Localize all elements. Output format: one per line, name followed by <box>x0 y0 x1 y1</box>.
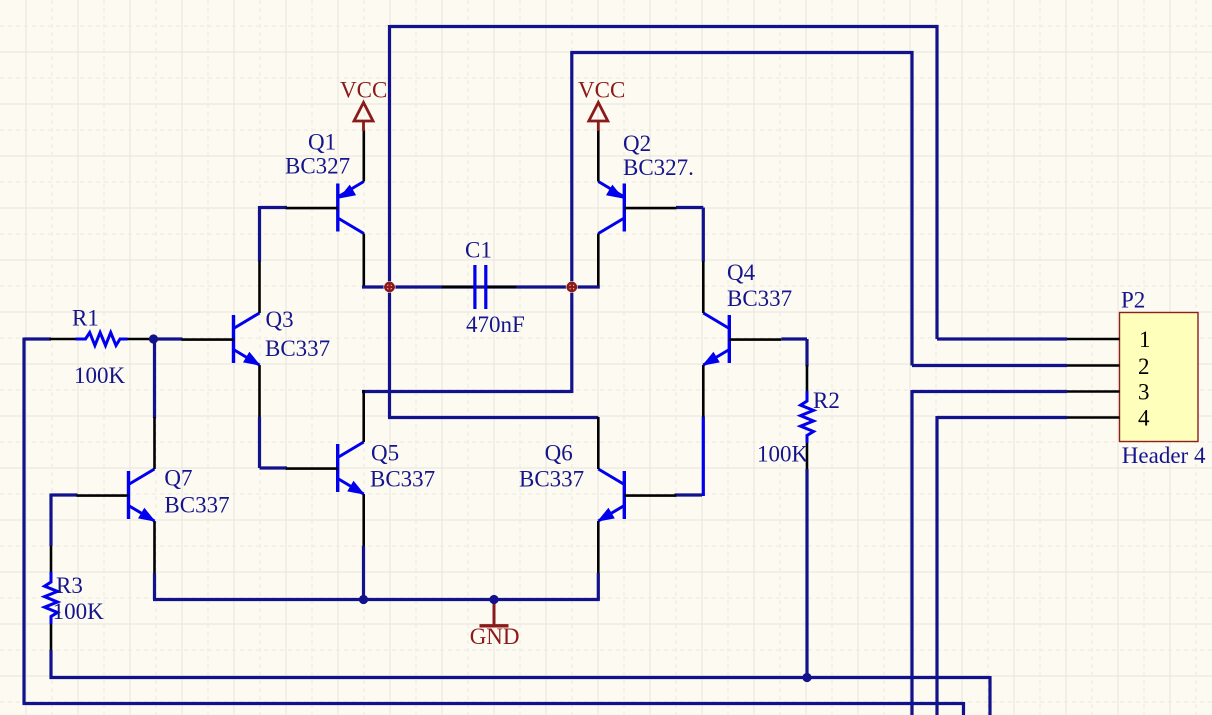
svg-text:470nF: 470nF <box>466 312 525 337</box>
transistor Q6 (NPN BC337, mirrored) <box>598 417 676 573</box>
wire segment Q3 emitter to Q5 base <box>260 417 288 468</box>
wire segment Q2 base to Q4 collector <box>676 208 703 262</box>
resistor R3 (100K) <box>45 546 58 650</box>
wire segment R1 junction down to Q7 collector <box>153 339 156 418</box>
svg-text:2: 2 <box>1138 354 1150 379</box>
svg-text:BC337: BC337 <box>370 466 435 491</box>
wire segment Q1 base to Q3 collector <box>260 206 288 262</box>
svg-text:100K: 100K <box>74 363 126 388</box>
svg-text:Q7: Q7 <box>164 466 192 491</box>
transistor Q7 (NPN BC337) <box>77 417 155 573</box>
wire segment Q4 emitter to Q6 base (blue colored wire) <box>675 417 704 497</box>
power port VCC (over Q2) <box>589 103 608 132</box>
wire emitter bus (Q7/Q5/GND/Q6 emitters) <box>153 546 600 600</box>
wire net P2 pin 4 (down to bottom edge) <box>937 416 1067 715</box>
svg-text:Q3: Q3 <box>266 307 294 332</box>
svg-text:4: 4 <box>1138 406 1150 431</box>
svg-text:Q6: Q6 <box>545 441 573 466</box>
wire ground bus (y=677) to bottom edge at right <box>50 676 991 715</box>
ground symbol GND <box>480 600 509 626</box>
svg-text:BC327.: BC327. <box>623 155 694 180</box>
junction dot at R2 bottom on ground bus <box>802 673 811 682</box>
wire segment Q7 base to R3 top <box>51 494 78 547</box>
resistor R2 (100K) <box>801 365 814 469</box>
P2 pin 2 stub <box>1067 364 1120 367</box>
svg-text:R1: R1 <box>72 306 99 331</box>
svg-text:BC337: BC337 <box>727 286 792 311</box>
connector P2 (Header 4) body <box>1120 313 1199 442</box>
wire net NetQ5_C (Q5 collector to header P2 pin 2, inner top loop) <box>362 51 1067 393</box>
svg-text:VCC: VCC <box>578 77 625 102</box>
wire net R1 left rail (R1 left pin down and along bottom) <box>23 338 964 715</box>
wire segment R1 right pin to Q3 base <box>154 337 183 340</box>
transistor Q5 (NPN BC337) <box>286 390 364 546</box>
svg-text:3: 3 <box>1138 380 1150 405</box>
wire net NetQ6_C (Q6 collector to header P2 pin 1, top outer loop) <box>388 25 1067 418</box>
transistor Q2 (PNP BC327, mirrored) <box>598 130 676 286</box>
svg-text:1: 1 <box>1139 327 1151 352</box>
svg-text:BC327: BC327 <box>285 153 350 178</box>
svg-text:BC337: BC337 <box>164 492 229 517</box>
svg-text:VCC: VCC <box>340 77 387 102</box>
svg-text:Q2: Q2 <box>623 131 651 156</box>
svg-text:Q4: Q4 <box>727 260 756 285</box>
junction dot at GND stub on emitter bus <box>489 595 498 604</box>
wire segment R2 bottom to ground bus <box>805 469 808 678</box>
wire net C1 (Q1 collector to Q2 collector through C1) <box>362 285 600 288</box>
svg-text:100K: 100K <box>757 442 809 467</box>
svg-text:Header 4: Header 4 <box>1122 443 1206 468</box>
transistor Q3 (NPN BC337) <box>182 261 260 417</box>
wire segment Q4 base to R2 top <box>781 339 807 367</box>
svg-text:Q5: Q5 <box>371 441 399 466</box>
transistor Q4 (NPN BC337, mirrored) <box>703 261 781 417</box>
resistor R1 (100K) <box>50 333 154 346</box>
junction dot at R1 / Q3 base / Q7 collector node <box>149 334 158 343</box>
no-ERC crossover marker at C1 wire x wire A crossing <box>384 281 396 293</box>
svg-text:R2: R2 <box>813 388 840 413</box>
wire net P2 pin 3 (down to bottom edge) <box>912 390 1067 715</box>
svg-text:GND: GND <box>470 624 520 649</box>
svg-text:C1: C1 <box>465 238 492 263</box>
P2 pin 3 stub <box>1067 390 1120 393</box>
svg-text:BC337: BC337 <box>265 336 330 361</box>
wire segment R3 bottom to ground bus <box>49 650 52 679</box>
svg-text:P2: P2 <box>1121 288 1145 313</box>
svg-text:R3: R3 <box>56 573 83 598</box>
capacitor C1 (470nF) <box>442 265 516 309</box>
transistor Q1 (PNP BC327) <box>286 130 364 286</box>
svg-text:Q1: Q1 <box>308 130 336 155</box>
P2 pin 1 stub <box>1067 338 1120 341</box>
svg-text:BC337: BC337 <box>519 466 584 491</box>
P2 pin 4 stub <box>1067 416 1120 419</box>
no-ERC crossover marker at C1 wire x wire B crossing <box>566 281 578 293</box>
junction dot at Q5 emitter on emitter bus <box>359 595 368 604</box>
power port VCC (over Q1) <box>354 103 373 132</box>
svg-text:100K: 100K <box>53 599 105 624</box>
